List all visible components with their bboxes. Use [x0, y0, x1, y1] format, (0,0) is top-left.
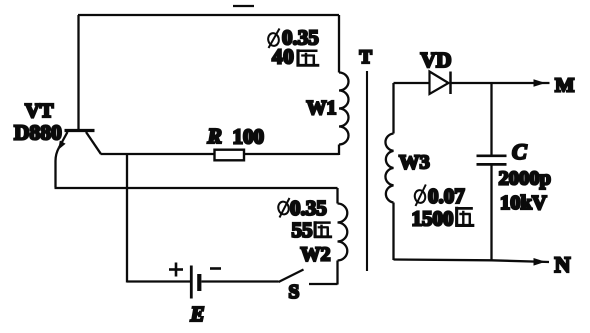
wire: base lead vertical [77, 15, 79, 129]
inductor W1 winding [339, 73, 349, 145]
label + [169, 263, 183, 277]
svg-text:2000p: 2000p [499, 168, 551, 190]
wire: R to W1 bottom [244, 153, 339, 155]
wire: diode anode wire [394, 82, 430, 84]
wire: W2 bottom leg [336, 261, 338, 285]
phi symbol of W1 label [267, 29, 280, 49]
CJK char turns (za) of W2 label [314, 221, 332, 238]
wire: emitter horizontal to W2 [55, 187, 338, 189]
wire: emitter curve down to y188 [56, 148, 60, 188]
wire: top horizontal (base to W1 top) [78, 6, 339, 15]
svg-text:S: S [289, 282, 300, 303]
wire: W1 top leg [338, 15, 340, 73]
wire: battery right to switch [202, 280, 279, 282]
W2 value label [290, 196, 327, 242]
svg-text:E: E [190, 302, 205, 326]
svg-text:0.35: 0.35 [290, 196, 327, 220]
resistor R 100 [215, 150, 245, 161]
wire: W3 bottom leg [392, 203, 394, 261]
terminal arrow N [534, 258, 546, 266]
svg-text:10kV: 10kV [500, 192, 547, 214]
wire: diode cathode to M arrow [451, 82, 550, 84]
wire: capacitor top branch [490, 83, 492, 155]
capacitor C 2000p [477, 156, 507, 165]
inductor W2 winding [338, 204, 348, 261]
label R 100 [207, 124, 265, 149]
svg-text:W2: W2 [301, 244, 331, 266]
wire: W3 top leg [392, 83, 394, 134]
svg-text:R: R [207, 124, 222, 148]
svg-text:M: M [555, 75, 574, 97]
transformer core T [366, 71, 368, 271]
wire: capacitor bottom branch [490, 166, 492, 262]
transistor VT D880 [58, 131, 101, 154]
W1 value label [272, 26, 319, 69]
C value label [499, 168, 551, 215]
wire: left column vertical (R wire to battery) [126, 154, 128, 283]
battery E [191, 266, 199, 299]
svg-text:1500: 1500 [412, 207, 454, 231]
wire: secondary bottom to N arrow [394, 260, 550, 263]
CJK char turns (za) of W3 label [455, 207, 474, 227]
svg-text:40: 40 [272, 45, 294, 69]
svg-text:VD: VD [421, 48, 452, 72]
phi symbol of W2 label [277, 198, 290, 218]
svg-text:W1: W1 [307, 97, 337, 119]
terminal arrow M [534, 79, 546, 87]
svg-text:55: 55 [292, 218, 313, 242]
wire: collector to R [101, 153, 215, 155]
svg-text:C: C [512, 139, 527, 164]
label - [210, 267, 221, 270]
svg-text:VT: VT [25, 100, 54, 122]
svg-text:100: 100 [233, 125, 265, 149]
diode VD [430, 72, 451, 95]
wire: battery left [127, 280, 190, 282]
svg-text:0.07: 0.07 [428, 184, 465, 208]
W3 value label [412, 184, 465, 231]
svg-text:N: N [555, 252, 571, 277]
svg-text:D880: D880 [14, 121, 62, 145]
phi symbol of W3 label [414, 185, 427, 207]
inductor W3 winding [385, 134, 393, 203]
switch S lever [279, 270, 304, 283]
CJK char turns (za) of W1 label [297, 49, 320, 66]
svg-text:W3: W3 [399, 152, 430, 174]
svg-text:T: T [360, 48, 373, 68]
wire: W1 bottom leg [338, 145, 340, 156]
wire: W2 top leg [336, 188, 338, 204]
wire: switch fixed contact to W2 [309, 283, 338, 285]
